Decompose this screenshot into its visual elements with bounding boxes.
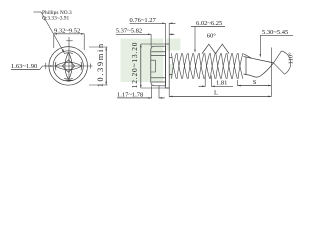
svg-text:60°: 60° — [207, 32, 217, 39]
svg-text:6.02~6.25: 6.02~6.25 — [196, 20, 222, 27]
svg-text:L: L — [214, 90, 218, 97]
svg-text:0.76~1.27: 0.76~1.27 — [130, 17, 157, 24]
svg-text:5.30~5.45: 5.30~5.45 — [262, 29, 288, 36]
svg-text:110°: 110° — [288, 52, 295, 65]
svg-text:10.39min: 10.39min — [96, 42, 105, 87]
svg-text:12.20~13.20: 12.20~13.20 — [130, 42, 139, 89]
svg-text:1.17~1.78: 1.17~1.78 — [117, 91, 143, 98]
svg-text:S: S — [253, 79, 257, 86]
svg-text:5.37~5.82: 5.37~5.82 — [116, 28, 142, 35]
svg-text:9.32~9.52: 9.32~9.52 — [54, 27, 80, 34]
svg-text:1.81: 1.81 — [216, 79, 227, 86]
